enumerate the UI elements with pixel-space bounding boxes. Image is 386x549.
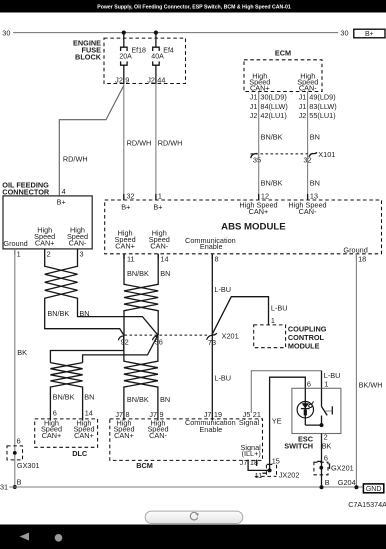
svg-text:BN: BN [160, 269, 170, 278]
svg-text:Signal: Signal [239, 418, 260, 427]
label B G204 [325, 478, 356, 487]
svg-text:G204: G204 [338, 478, 356, 487]
svg-text:CAN+: CAN+ [250, 83, 270, 92]
svg-text:BK: BK [17, 348, 27, 357]
svg-text:J7: J7 [204, 410, 212, 419]
svg-text:8: 8 [215, 254, 219, 263]
BCM pin J7 8 [115, 410, 129, 419]
ECM pin J1 84(LLW) [250, 102, 288, 111]
ECM pin J2 42(LU1) [250, 111, 287, 120]
connector X201 [125, 331, 239, 340]
svg-text:J2: J2 [250, 111, 258, 120]
svg-text:32: 32 [127, 191, 135, 200]
svg-text:CAN-: CAN- [149, 431, 167, 440]
ABS pin 13 [308, 191, 318, 200]
junction dot JX202 [268, 468, 272, 472]
svg-text:RD/WH: RD/WH [63, 155, 88, 164]
svg-text:BN/BK: BN/BK [127, 395, 149, 404]
wire X101 to ABS 13 BN [308, 154, 320, 200]
svg-text:13: 13 [310, 191, 318, 200]
svg-text:RD/WH: RD/WH [127, 139, 152, 148]
oil feeding connector [2, 180, 92, 249]
svg-text:3: 3 [80, 249, 84, 258]
svg-text:L-BU: L-BU [214, 285, 231, 294]
ABS pin 32 [124, 191, 135, 200]
svg-text:J2: J2 [115, 75, 123, 84]
wire L-BU X201 73 to BCM J7 19 [212, 335, 231, 420]
svg-text:Enable: Enable [200, 242, 223, 251]
svg-text:30: 30 [2, 28, 10, 37]
svg-text:C7A15374A: C7A15374A [348, 500, 386, 509]
svg-text:B: B [325, 478, 330, 487]
svg-text:RD/WH: RD/WH [158, 139, 183, 148]
svg-text:21: 21 [253, 410, 261, 419]
ABS pin 8 [212, 254, 218, 264]
fuse Ef18 20A [119, 33, 146, 84]
label ESC SWITCH [284, 434, 313, 450]
svg-text:B+: B+ [153, 203, 162, 212]
svg-text:14: 14 [160, 254, 168, 263]
svg-text:J7: J7 [240, 458, 248, 467]
svg-text:YE: YE [272, 417, 282, 426]
engine fuse block enclosure [73, 38, 185, 83]
junction dot ESC output [320, 423, 324, 427]
svg-text:J7: J7 [149, 410, 157, 419]
oil connector pin 2 [45, 249, 51, 259]
svg-text:14: 14 [85, 409, 93, 418]
svg-text:BN/BK: BN/BK [261, 133, 283, 142]
ECM pin J2 55(LU1) [299, 111, 336, 120]
wire RD/WH fuse Ef18 to ABS 32 [124, 84, 152, 200]
X201 pin 56 [153, 336, 163, 346]
wire X201 56 branch to DLC 14 [83, 335, 158, 363]
fuse Ef4 40A [151, 33, 174, 84]
node 30 power bus [13, 32, 338, 34]
ESC switch illumination lamp [297, 388, 314, 425]
connector JX202 pin 11 [255, 471, 267, 480]
GND box [363, 484, 383, 493]
oil connector pin 3 [78, 249, 84, 259]
svg-text:6: 6 [53, 409, 57, 418]
svg-text:JX202: JX202 [279, 470, 300, 479]
android navigation bar [0, 525, 386, 549]
wire BK oil connector ground [15, 249, 27, 487]
svg-text:J2: J2 [147, 75, 155, 84]
wire X101 to ABS 12 BN/BK [259, 154, 283, 200]
ESC switch contact [305, 388, 332, 425]
wire L-BU ABS 8 to X201 73 [212, 254, 231, 335]
svg-text:MODULE: MODULE [288, 342, 320, 351]
svg-text:35: 35 [253, 156, 261, 165]
wire ECM CAN- to X101 BN [308, 92, 320, 154]
svg-text:6: 6 [307, 380, 311, 389]
svg-text:CAN+: CAN+ [115, 241, 135, 250]
svg-text:30: 30 [340, 28, 348, 37]
svg-text:CONNECTOR: CONNECTOR [2, 187, 50, 196]
svg-text:11: 11 [127, 254, 135, 263]
svg-text:BN/BK: BN/BK [127, 269, 149, 278]
svg-text:49(LD9): 49(LD9) [309, 93, 335, 102]
ABS pin 14 [158, 254, 168, 264]
svg-text:15: 15 [272, 457, 280, 466]
svg-text:B+: B+ [365, 31, 374, 38]
svg-text:BN: BN [310, 179, 320, 188]
svg-text:BN: BN [84, 392, 94, 401]
svg-text:55(LU1): 55(LU1) [309, 111, 335, 120]
BCM pin J5 21 [243, 410, 261, 419]
svg-text:CAN+: CAN+ [74, 431, 94, 440]
svg-text:Ground: Ground [3, 239, 27, 248]
svg-text:X201: X201 [222, 331, 239, 340]
svg-text:4: 4 [62, 187, 66, 196]
ground splice GX201 [314, 453, 354, 474]
connector JX202 pin 15 [267, 457, 280, 466]
svg-text:92: 92 [121, 337, 129, 346]
svg-text:BN/BK: BN/BK [261, 179, 283, 188]
svg-text:1: 1 [158, 191, 162, 200]
svg-text:2: 2 [47, 249, 51, 258]
svg-text:BN: BN [310, 133, 320, 142]
junction dot ESC ground on bus 31 [320, 485, 324, 489]
wire X201 92 branch to DLC 6 [50, 335, 123, 363]
oil connector pin 1 [15, 249, 21, 259]
wire L-BU branch to coupling control module [212, 297, 287, 334]
wire RD/WH fuse Ef18 to oil feeding connector B+ [59, 86, 124, 197]
svg-text:Power Supply, Oil Feeding Conn: Power Supply, Oil Feeding Connector, ESP… [97, 5, 291, 11]
BCM pin J7 18 [240, 458, 258, 467]
svg-text:CAN+: CAN+ [114, 431, 134, 440]
wire L-BU into ESC switch pin 1 [322, 371, 341, 389]
svg-text:84(LLW): 84(LLW) [260, 102, 287, 111]
svg-text:CAN-: CAN- [69, 238, 87, 247]
wire BK ESC switch 2 to ground [322, 433, 332, 488]
junction dot GX301 on bus 31 [13, 485, 17, 489]
svg-text:CAN-: CAN- [299, 83, 317, 92]
svg-text:11: 11 [255, 471, 263, 480]
wire ECM CAN+ to X101 BN/BK [259, 92, 283, 154]
svg-text:L-BU: L-BU [271, 304, 288, 313]
svg-text:Ef4: Ef4 [163, 47, 174, 54]
wire BN/BK ABS 11 twisted pair to X201 92 [124, 254, 158, 335]
svg-text:1: 1 [271, 316, 275, 325]
svg-text:Enable: Enable [199, 425, 222, 434]
ECM pin J1 30(LD9) [250, 93, 287, 102]
DLC connector [35, 418, 98, 458]
svg-text:J1: J1 [299, 93, 307, 102]
wire BCM J5 21 to ESC switch 1 [251, 371, 321, 413]
junction dot fuse Ef18 tap [122, 30, 126, 34]
BCM pin J7 9 [149, 410, 163, 419]
X201 pin 92 [118, 336, 128, 346]
coupling control module [254, 324, 327, 350]
junction dot fuse Ef4 tap [154, 30, 158, 34]
svg-text:Ground: Ground [343, 245, 367, 254]
svg-text:SWITCH: SWITCH [284, 441, 313, 450]
svg-text:BK/WH: BK/WH [359, 380, 383, 389]
svg-text:CAN+: CAN+ [249, 207, 269, 216]
wire BCM J7 18 to JX202 [248, 466, 270, 470]
svg-text:1: 1 [324, 380, 328, 389]
svg-text:18: 18 [358, 255, 366, 264]
ground splice GX301 [7, 437, 40, 487]
svg-text:9: 9 [160, 410, 164, 419]
wire BN/BK BCM twisted pair to J7 8 [124, 335, 158, 420]
connector X101 [251, 150, 336, 159]
svg-text:19: 19 [214, 410, 222, 419]
svg-text:J1: J1 [299, 102, 307, 111]
svg-text:1: 1 [17, 249, 21, 258]
svg-text:CAN+: CAN+ [42, 431, 62, 440]
node 31 ground bus [0, 483, 363, 492]
svg-text:J1: J1 [250, 102, 258, 111]
svg-text:42(LU1): 42(LU1) [260, 111, 286, 120]
wire BK/WH ABS 18 to ground [356, 254, 382, 487]
ABS pin 18 [356, 254, 366, 264]
svg-text:B: B [17, 477, 22, 486]
svg-text:83(LLW): 83(LLW) [309, 102, 336, 111]
ECM module [244, 49, 322, 93]
svg-text:ABS MODULE: ABS MODULE [221, 221, 286, 232]
wire YE ESC switch 6 to JX202 [270, 377, 306, 470]
svg-text:CAN-: CAN- [299, 207, 317, 216]
svg-text:BN/BK: BN/BK [53, 392, 75, 401]
wire BN/BK oil CAN+ twisted pair to X201 92 [45, 255, 124, 335]
svg-text:Ef18: Ef18 [132, 47, 147, 54]
wire BN DLC twisted pair [50, 363, 94, 421]
pin J2 44 [147, 75, 165, 84]
svg-text:40A: 40A [151, 54, 164, 61]
wire BN ABS 14 twisted pair to X201 56 [124, 254, 170, 335]
svg-text:BN/BK: BN/BK [47, 309, 69, 318]
svg-text:8: 8 [126, 410, 130, 419]
svg-text:6: 6 [324, 453, 328, 462]
svg-text:BN: BN [160, 395, 170, 404]
BCM module [110, 418, 263, 470]
svg-text:20A: 20A [119, 54, 132, 61]
junction dot BK/WH on bus 31 [354, 485, 358, 489]
svg-text:BLOCK: BLOCK [75, 53, 102, 62]
svg-text:GX301: GX301 [17, 461, 40, 470]
B+ supply box [354, 29, 385, 38]
app title bar [0, 0, 386, 13]
wire BN/BK DLC twisted pair [50, 363, 82, 421]
svg-text:BCM: BCM [136, 461, 153, 470]
svg-text:30(LD9): 30(LD9) [260, 93, 286, 102]
ABS module [105, 200, 382, 254]
BCM pin J7 19 [204, 410, 222, 419]
pin J2 9 [115, 75, 129, 84]
svg-text:J2: J2 [299, 111, 307, 120]
svg-text:12: 12 [261, 191, 269, 200]
svg-text:6: 6 [17, 437, 21, 446]
ABS pin 1 [156, 191, 162, 200]
svg-text:DLC: DLC [72, 449, 88, 458]
svg-text:BN: BN [79, 309, 89, 318]
svg-text:B+: B+ [121, 203, 130, 212]
svg-text:L-BU: L-BU [214, 373, 231, 382]
svg-text:BK: BK [322, 441, 332, 450]
svg-text:ECM: ECM [275, 49, 291, 58]
svg-text:GND: GND [366, 486, 382, 493]
svg-text:B+: B+ [57, 198, 66, 207]
svg-text:9: 9 [125, 75, 129, 84]
svg-text:J1: J1 [250, 93, 258, 102]
svg-text:2: 2 [324, 433, 328, 442]
svg-text:CAN+: CAN+ [35, 238, 55, 247]
svg-text:J7: J7 [115, 410, 123, 419]
svg-text:GX201: GX201 [331, 464, 354, 473]
ABS pin 12 [259, 191, 269, 200]
ESC switch body [292, 388, 341, 433]
svg-text:J5: J5 [243, 410, 251, 419]
svg-text:CAN-: CAN- [150, 241, 168, 250]
svg-text:44: 44 [157, 75, 165, 84]
connector JX202 housing [255, 465, 300, 480]
wire RD/WH fuse Ef4 to ABS 1 [156, 84, 183, 200]
floating toolbar pill [145, 511, 243, 523]
ECM pin J1 49(LD9) [299, 93, 336, 102]
svg-text:X101: X101 [318, 150, 335, 159]
ECM pin J1 83(LLW) [299, 102, 337, 111]
ABS pin 11 [124, 254, 135, 264]
wire BN oil CAN- twisted pair to X201 56 [45, 255, 158, 335]
wire BN BCM twisted pair to J7 9 [124, 335, 170, 420]
svg-text:31: 31 [0, 483, 8, 492]
